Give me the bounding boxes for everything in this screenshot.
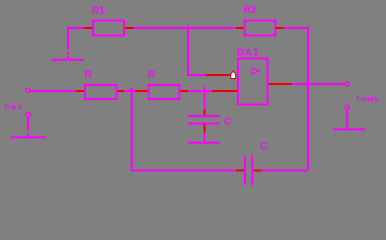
ground G3 (output) [333,128,365,130]
ground G1 (top-left, R1 to ground) [52,59,85,61]
svg-text:R: R [148,70,156,81]
ground G2 (input) [11,136,46,138]
input terminal Uvx [26,88,30,92]
wire C2 to output node vertical [261,170,308,172]
capacitor C1 (node B to ground) [188,91,220,142]
output terminal ground pin [345,105,349,129]
op-amp output pin lead [269,83,293,85]
resistor R (first) [76,85,126,99]
pin marker (white) [231,71,236,78]
svg-text:C: C [260,141,268,153]
junction at output node [305,82,307,85]
junction node B (to C1) [204,87,206,91]
capacitor C2 (feedback) [236,156,261,186]
resistor R (second) [135,85,189,99]
junction node T [187,26,189,28]
svg-text:R2: R2 [244,5,257,16]
svg-text:R: R [85,70,93,81]
junction node A [131,87,133,91]
op-amp non-inverting input pin lead [212,90,237,92]
wire top-left from ground to R1 [68,28,84,60]
wire R1 to node T [134,27,237,29]
resistor R1 [84,21,135,36]
svg-text:Uвх: Uвх [5,101,23,111]
wire output node to output terminal [309,83,345,85]
wire input to first R [31,90,77,92]
wire R2 to output node, down to bottom feedback [284,28,309,171]
output terminal Uvyx [345,82,349,86]
svg-text:Uвых: Uвых [356,93,379,103]
svg-text:C: C [224,116,232,128]
wire op-amp output to output node [292,83,307,85]
wire node T down to op-amp inverting input [188,28,206,75]
ground G4 (under C1) [188,142,220,144]
svg-text:DA1: DA1 [237,48,259,59]
wire node A segment [124,90,136,92]
op-amp inverting input pin lead [206,74,237,76]
wire second R to op-amp non-inverting input [188,90,213,92]
resistor R2 [236,21,284,36]
wire node A down and along bottom to C2 [132,91,237,171]
svg-text:R1: R1 [92,6,105,17]
op-amp DA1 [238,59,268,105]
input terminal ground pin [26,113,32,138]
